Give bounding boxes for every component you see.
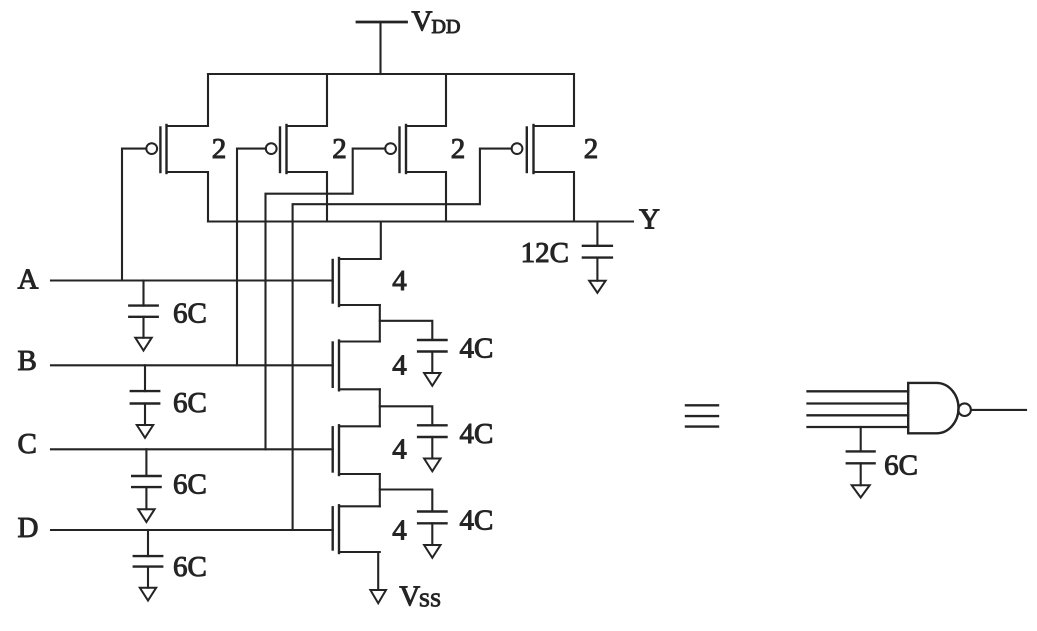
capacitor 4C C1 (418, 340, 446, 373)
svg-text:2: 2 (212, 133, 227, 165)
nmos M6 (333, 341, 380, 391)
capacitor 4C C2 (418, 425, 446, 458)
power symbol VDD (357, 22, 407, 74)
svg-text:DD: DD (432, 16, 461, 38)
nmos M7 (333, 425, 380, 475)
ground (B cap) (137, 425, 153, 438)
pmos M2 (266, 74, 327, 222)
value label 6C (A) (173, 298, 207, 330)
nand output wire (971, 409, 1026, 411)
wire C to M3 gate (266, 149, 386, 450)
value label 12C (521, 237, 569, 269)
ground (C cap) (138, 509, 154, 522)
svg-text:B: B (18, 345, 37, 377)
wire output rail Y (208, 220, 633, 222)
svg-text:4C: 4C (460, 504, 494, 536)
capacitor 4C C3 (418, 512, 446, 546)
svg-text:4: 4 (392, 265, 407, 297)
wire A to M1 gate (122, 149, 146, 281)
wire B to M2 gate (237, 149, 266, 366)
capacitor 12C (583, 222, 612, 281)
net label Y (639, 203, 660, 235)
value label 4C (C2) (460, 418, 494, 450)
nmos M5 (333, 222, 381, 307)
wire n2 to C2 (380, 406, 433, 425)
value 2 (M1) (212, 133, 227, 165)
svg-text:6C: 6C (173, 551, 207, 583)
svg-text:2: 2 (451, 133, 466, 165)
ground (D cap) (140, 588, 156, 601)
ground (C1) (424, 373, 440, 386)
nand gate U1 (908, 383, 971, 433)
value 4 (M7) (392, 434, 407, 466)
nand input wire 3 (808, 414, 909, 416)
value label 6C (D) (173, 551, 207, 583)
capacitor 6C on D (134, 530, 162, 588)
input line A (51, 279, 333, 281)
svg-text:2: 2 (332, 133, 347, 165)
ground VSS (370, 590, 386, 603)
svg-text:6C: 6C (173, 298, 207, 330)
input line C (51, 448, 333, 450)
wire M8 source to VSS (339, 552, 378, 590)
equivalence symbol (686, 405, 718, 426)
pmos M4 (512, 74, 574, 222)
value 4 (M8) (392, 514, 407, 546)
net label VSS (399, 581, 441, 613)
svg-text:V: V (399, 581, 420, 613)
value 4 (M6) (392, 350, 407, 382)
value label 4C (C1) (460, 333, 494, 365)
port label C (18, 428, 37, 460)
pmos M1 (146, 74, 208, 222)
svg-text:C: C (18, 428, 37, 460)
ground (12C cap) (589, 281, 605, 293)
svg-text:2: 2 (584, 133, 599, 165)
wire node n3 (379, 474, 381, 506)
svg-text:4: 4 (392, 434, 407, 466)
value label 6C (B) (173, 387, 207, 419)
svg-text:Y: Y (639, 203, 660, 235)
capacitor 6C on C (132, 449, 160, 509)
svg-text:4: 4 (392, 514, 407, 546)
svg-text:4C: 4C (460, 418, 494, 450)
port label D (18, 512, 39, 544)
svg-text:V: V (412, 6, 433, 38)
ground (C2) (424, 459, 440, 472)
svg-text:D: D (18, 512, 39, 544)
value label 6C (C) (173, 469, 207, 501)
svg-text:SS: SS (419, 590, 441, 612)
wire VDD rail (208, 73, 574, 75)
svg-text:12C: 12C (521, 237, 569, 269)
wire node n1 (379, 305, 381, 342)
port label B (18, 345, 37, 377)
capacitor 6C (nand) (847, 427, 875, 485)
wire n1 to C1 (380, 321, 433, 340)
wire node n2 (379, 389, 381, 426)
svg-text:6C: 6C (173, 387, 207, 419)
pmos M3 (385, 74, 446, 222)
wire D to M4 gate (293, 149, 512, 530)
svg-text:4C: 4C (460, 333, 494, 365)
net label VDD (412, 6, 461, 39)
capacitor 6C on B (131, 365, 159, 425)
nand input wire 1 (808, 390, 909, 392)
capacitor 6C on A (129, 281, 157, 338)
nand input wire 2 (808, 402, 909, 404)
input line D (51, 529, 333, 531)
nand input wire 4 (808, 426, 909, 428)
svg-text:A: A (18, 263, 39, 295)
wire n3 to C3 (380, 490, 433, 512)
ground (A cap) (135, 338, 151, 351)
input line B (51, 364, 333, 366)
value 2 (M4) (584, 133, 599, 165)
value 2 (M3) (451, 133, 466, 165)
value label 6C (nand) (884, 449, 918, 481)
value 2 (M2) (332, 133, 347, 165)
value label 4C (C3) (460, 504, 494, 536)
svg-text:6C: 6C (884, 449, 918, 481)
svg-text:4: 4 (392, 350, 407, 382)
ground (nand cap) (852, 485, 870, 497)
value 4 (M5) (392, 265, 407, 297)
port label A (18, 263, 39, 295)
ground (C3) (424, 545, 440, 558)
nmos M8 (333, 505, 380, 553)
svg-text:6C: 6C (173, 469, 207, 501)
